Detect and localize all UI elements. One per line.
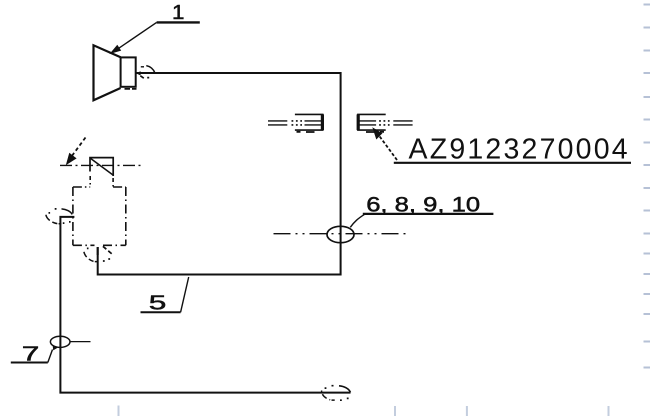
connector P1 feet — [297, 131, 315, 133]
label 7 leader — [48, 350, 53, 363]
horn H1 terminal arc — [146, 66, 155, 73]
grommet 7 ellipse — [50, 336, 70, 347]
grommet 7 stub line — [70, 341, 91, 343]
wire stub: bracket to inner left vertical — [97, 247, 99, 255]
table border ticks (bottom edge) — [118, 406, 610, 417]
label 5 underline — [141, 311, 181, 313]
bracket (phantom) top block — [90, 158, 113, 176]
connector P2 pins — [357, 121, 376, 125]
table border dashes (right edge) — [644, 4, 650, 369]
connector P2 housing thick face — [357, 114, 360, 130]
connector P1 housing thick face — [321, 114, 324, 130]
wire-end grommet: bottom-left arc — [322, 394, 334, 400]
grommet arc left: bottom-left curve — [46, 215, 61, 224]
connector P1 housing — [295, 114, 324, 130]
wire-end grommet: dots — [321, 386, 349, 401]
label 5 leader — [181, 277, 189, 312]
label 6,8,9,10 underline — [363, 213, 494, 215]
label 1 underline — [157, 21, 200, 23]
connector P2 housing — [357, 114, 386, 130]
bracket (phantom) top block diagonal — [90, 158, 113, 175]
junction grommet 6,8,9,10 ellipse — [327, 226, 354, 242]
svg-text:AZ9123270004: AZ9123270004 — [409, 133, 630, 165]
svg-text:6, 8, 9, 10: 6, 8, 9, 10 — [366, 193, 480, 216]
label 7 underline — [11, 362, 48, 364]
horn H1 wire-end arrow tick — [136, 71, 141, 75]
horn H1 terminal ticks — [140, 76, 149, 78]
svg-text:7: 7 — [22, 342, 40, 365]
connector P2 wire double line — [393, 121, 412, 125]
horn H1 mounting feet — [125, 88, 137, 90]
label 1 arrowhead — [110, 45, 122, 54]
connector P2 dotted lead — [379, 121, 390, 125]
label AZ9123270004 underline — [394, 162, 631, 164]
grommet arc bottom: left curve — [84, 252, 97, 262]
label AZ9123270004 arrowhead — [372, 127, 382, 139]
connector P1 wire double line — [268, 121, 287, 125]
connector P1 pins — [305, 121, 324, 125]
wire: horn to junction (top run, right vertical, inner bottom, inner left vertical) — [98, 73, 341, 275]
connector P1 dotted lead — [292, 121, 303, 125]
bracket (phantom) shoulders — [73, 186, 126, 188]
label AZ9123270004 leader — [376, 132, 397, 161]
grommet arc bottom: dots — [87, 248, 110, 261]
bracket (phantom) neck dash-dot sides — [90, 176, 113, 187]
bracket (phantom) centerline — [60, 164, 144, 166]
grommet arc bottom: top-right diagonal — [103, 246, 112, 254]
label 7 arrowhead — [53, 345, 58, 351]
horn H1 driver body — [121, 57, 136, 86]
connector P2 feet — [366, 131, 384, 133]
horn H1 terminal dash — [141, 66, 144, 68]
bracket (phantom) arrowhead — [66, 153, 77, 165]
label 6,8,9,10 leader — [350, 214, 365, 227]
horn H1 cone — [94, 45, 121, 100]
svg-text:5: 5 — [149, 291, 167, 314]
wire-end grommet: top-right arc — [339, 386, 350, 393]
bracket (phantom) bottom edge — [73, 244, 126, 246]
wire: outer run with stub (left vertical and bottom run) — [60, 217, 350, 393]
svg-text:1: 1 — [172, 2, 184, 24]
grommet arc left: top-right curve — [62, 209, 73, 215]
grommet arc left: dots — [49, 209, 71, 223]
bracket (phantom) arrow — [72, 138, 86, 157]
bracket (phantom) body sides — [73, 187, 126, 245]
label 1 leader line — [113, 22, 157, 52]
junction centerline (dash-dot) — [274, 233, 406, 235]
